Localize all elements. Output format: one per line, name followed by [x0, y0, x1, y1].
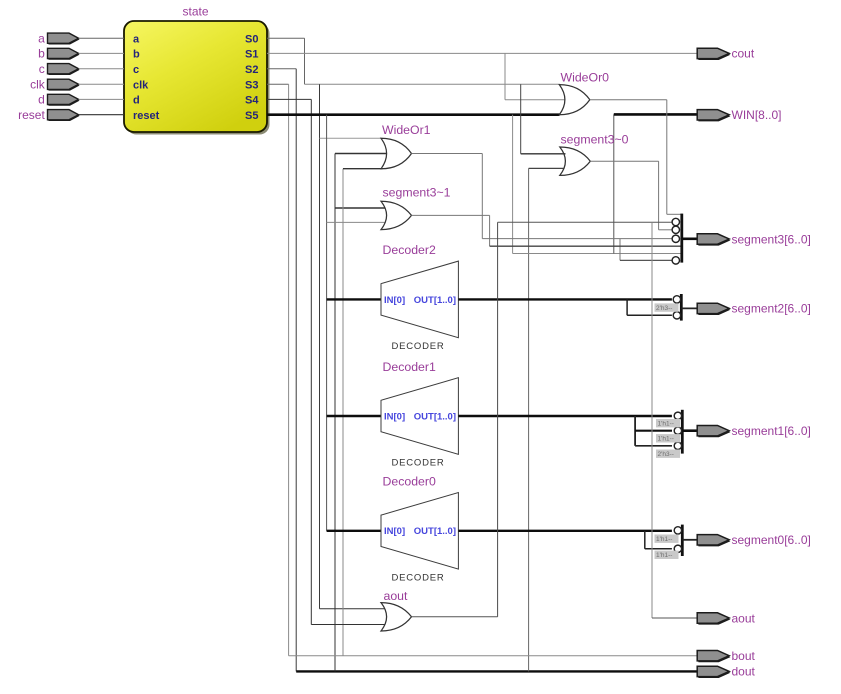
svg-text:DECODER: DECODER	[391, 458, 444, 469]
output pin segment2[6..0]	[698, 305, 730, 315]
wire input reset to block	[79, 114, 124, 116]
output pin aout	[698, 614, 730, 624]
bus bar segment3	[680, 214, 683, 263]
or-gate WideOr1	[381, 138, 412, 169]
svg-text:segment3~0: segment3~0	[561, 133, 629, 147]
svg-text:S3: S3	[245, 80, 258, 92]
wire WideOr0 output to segment3 bus bar top	[590, 99, 667, 101]
svg-text:DECODER: DECODER	[391, 573, 444, 584]
svg-text:cout: cout	[732, 47, 755, 61]
constant 1'h1 labels and 2'h3 label segment1	[656, 419, 680, 427]
wire branch from circle3 line down to circle 4	[619, 239, 621, 261]
svg-text:segment3~1: segment3~1	[383, 185, 451, 199]
svg-text:2'h3--: 2'h3--	[658, 451, 674, 458]
wire Decoder1 input (thick) from S5 riser	[327, 415, 382, 417]
wire aout gate output up to segment3 circle 1 line	[412, 616, 498, 618]
svg-text:Decoder2: Decoder2	[383, 243, 436, 257]
svg-text:S4: S4	[245, 95, 259, 107]
junction circles segment1	[674, 412, 681, 419]
wire segment3 pin stub (thick)	[682, 238, 698, 241]
svg-text:1'h1--: 1'h1--	[658, 421, 674, 428]
input pin c	[49, 65, 80, 75]
svg-text:b: b	[133, 49, 140, 61]
svg-text:clk: clk	[133, 80, 149, 92]
svg-text:OUT[1..0]: OUT[1..0]	[414, 295, 456, 306]
input pin reset	[49, 111, 80, 121]
svg-text:IN[0]: IN[0]	[384, 295, 405, 306]
svg-text:b: b	[38, 47, 45, 61]
svg-text:WideOr1: WideOr1	[382, 123, 431, 137]
wire S5 riser to segment3~1 bottom input and decoder inputs	[326, 115, 328, 531]
wire segment1 pin stub (thick)	[682, 429, 697, 432]
wire segment2 pin stub	[681, 307, 697, 309]
svg-text:Decoder0: Decoder0	[383, 475, 436, 489]
svg-text:1'h1--: 1'h1--	[658, 436, 674, 443]
wire segment0 bit0 split	[644, 531, 646, 549]
wire WideOr1 output to bus circle 3	[412, 153, 483, 155]
svg-text:a: a	[38, 32, 45, 46]
svg-text:d: d	[133, 95, 140, 107]
svg-text:a: a	[133, 33, 140, 45]
wire dout line (thick)	[296, 670, 697, 672]
wire segment3~0 output to bus circle 2	[590, 160, 658, 162]
svg-text:OUT[1..0]: OUT[1..0]	[414, 526, 456, 537]
wire S4 net: block to elbow, down to aout gate bottom input	[267, 98, 311, 100]
junction circles segment3	[672, 218, 679, 225]
output pin segment1[6..0]	[698, 427, 730, 437]
svg-text:Decoder1: Decoder1	[383, 360, 436, 374]
constant 2h3 label segment2	[655, 303, 679, 311]
svg-text:WideOr0: WideOr0	[561, 71, 610, 85]
wire segment1 bit splits	[634, 416, 636, 446]
wire input c to block	[79, 68, 124, 70]
wire S0 net: block to elbow, down, across to WideOr0 top input	[267, 37, 305, 39]
output pin segment0[6..0]	[698, 536, 730, 546]
output pin segment3[6..0]	[698, 235, 730, 245]
input pin d	[49, 96, 80, 106]
wire input clk to block	[79, 83, 124, 85]
svg-text:WIN[8..0]: WIN[8..0]	[732, 108, 782, 122]
bus bar segment0	[681, 525, 684, 556]
svg-text:DECODER: DECODER	[391, 341, 444, 352]
output pin dout	[698, 668, 730, 678]
svg-text:IN[0]: IN[0]	[384, 411, 405, 422]
wire input b to block	[79, 52, 124, 54]
wire Decoder2 input (thick) from S5 riser	[327, 298, 382, 300]
svg-text:S1: S1	[245, 49, 258, 61]
svg-text:dout: dout	[732, 665, 756, 679]
wire S5 branch down to WIN feed line	[512, 115, 514, 254]
svg-text:segment0[6..0]: segment0[6..0]	[732, 533, 811, 547]
svg-text:segment3[6..0]: segment3[6..0]	[732, 232, 811, 246]
wire S2 net: block to elbow, down to dout line	[267, 68, 296, 70]
svg-text:OUT[1..0]: OUT[1..0]	[414, 411, 456, 422]
wire segment3~0 top input from S0	[520, 84, 522, 154]
wire S2 riser to segment3~0 bottom input	[528, 168, 530, 671]
or-gate WideOr0	[559, 85, 590, 115]
wire S3 net: block to elbow, down to bout line	[267, 83, 289, 85]
output pin cout	[698, 50, 730, 60]
wire bout line	[289, 655, 698, 657]
svg-text:2'h3--: 2'h3--	[656, 305, 672, 312]
junction circles segment0	[674, 527, 681, 534]
svg-text:S5: S5	[245, 110, 258, 122]
svg-text:bout: bout	[732, 649, 756, 663]
svg-text:aout: aout	[384, 589, 409, 603]
svg-text:c: c	[133, 64, 139, 76]
state machine block "state"	[127, 24, 270, 135]
svg-text:clk: clk	[30, 78, 46, 92]
wire Decoder0 output bus (thick)	[458, 530, 672, 532]
wire Decoder0 input (thick) from S5 riser	[327, 530, 382, 532]
input pin a	[49, 34, 80, 44]
svg-text:reset: reset	[18, 108, 45, 122]
wire input a to block	[79, 37, 124, 39]
constant 1'h1 labels segment0	[655, 535, 679, 543]
svg-text:S2: S2	[245, 64, 258, 76]
output pin bout	[698, 652, 730, 662]
wire S5 bus (thick): block to WideOr0 bottom input	[267, 113, 560, 116]
wire input d to block	[79, 98, 124, 100]
bus bar segment2	[680, 294, 683, 321]
or-gate aout	[381, 603, 412, 631]
wire aout net down to aout pin	[651, 222, 653, 618]
wire WIN riser and bus to WIN pin (thick)	[613, 114, 615, 253]
svg-text:reset: reset	[133, 110, 160, 122]
wire S1 branch down to WideOr0 middle input	[504, 53, 506, 99]
wire S3 riser to WideOr1 bottom input	[342, 169, 344, 656]
svg-text:d: d	[38, 93, 45, 107]
wire Decoder2 output bus (thick)	[458, 298, 672, 300]
bus bar segment1	[681, 410, 684, 454]
output pin WIN[8..0]	[698, 111, 730, 121]
wire segment2 bit0 split	[626, 299, 628, 315]
input pin clk	[49, 80, 80, 90]
wire S1 net: block to cout pin, long horizontal	[267, 52, 697, 54]
svg-text:1'h1--: 1'h1--	[656, 552, 672, 559]
svg-text:IN[0]: IN[0]	[384, 526, 405, 537]
input pin b	[49, 50, 80, 60]
wire segment3~1 output to segment3 bus bar	[412, 214, 490, 216]
svg-text:aout: aout	[732, 611, 756, 625]
wire Decoder1 output bus (thick)	[458, 415, 672, 417]
wire segment0 pin stub	[682, 539, 697, 541]
svg-text:S0: S0	[245, 33, 258, 45]
svg-text:c: c	[39, 62, 45, 76]
svg-text:segment1[6..0]: segment1[6..0]	[732, 424, 811, 438]
wire S0 branch down to aout gate top input, tap to WideOr1 top input	[319, 84, 321, 608]
wire S2 riser to WideOr1 mid + segment3~1 top inputs	[334, 154, 336, 672]
or-gate segment3~0	[560, 147, 591, 175]
svg-text:1'h1--: 1'h1--	[656, 536, 672, 543]
junction circles segment2	[673, 296, 680, 303]
svg-text:state: state	[182, 5, 208, 19]
svg-text:segment2[6..0]: segment2[6..0]	[732, 302, 811, 316]
or-gate segment3~1	[381, 201, 412, 229]
